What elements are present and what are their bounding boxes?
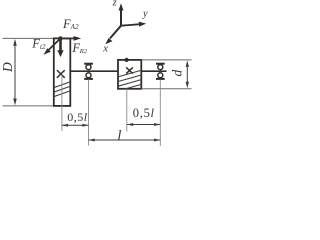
svg-text:y: y: [142, 8, 148, 19]
dimension 0,5l right: [127, 123, 160, 126]
svg-text:d: d: [170, 70, 185, 77]
shaft segment gear2 to right end: [141, 70, 166, 72]
extension line below gear1 center: [61, 75, 63, 132]
dimension l: [89, 139, 161, 142]
force application dot on gear1: [58, 36, 62, 40]
force F_A2 arrow: [61, 36, 82, 41]
bearing left: [84, 64, 93, 79]
svg-text:0,5l: 0,5l: [67, 110, 88, 124]
gear2 hub cross: [126, 67, 133, 73]
gear wheel 1 (diameter D): [54, 38, 71, 106]
gear1 hub cross: [57, 70, 65, 78]
extension line gear1 bottom (D lower): [3, 105, 54, 107]
bearing right: [156, 64, 165, 79]
dimension d: [186, 60, 189, 88]
y axis: [121, 24, 140, 26]
z axis: [120, 9, 122, 26]
dimension D: [13, 39, 17, 106]
svg-text:0,5l: 0,5l: [133, 106, 155, 120]
x axis: [110, 26, 121, 39]
force F_R2 arrow: [57, 38, 63, 57]
svg-text:x: x: [102, 44, 108, 55]
force F_t2 arrow: [44, 38, 61, 54]
dimension 0,5l left: [62, 124, 89, 127]
extension line below left bearing: [88, 80, 90, 146]
gear1 hatching: [53, 82, 71, 97]
shaft segment gear1 to gear2: [70, 70, 118, 72]
svg-text:D: D: [0, 62, 15, 73]
extension line below right bearing: [159, 80, 161, 147]
extension line gear1 top (D upper): [3, 37, 54, 39]
svg-text:l: l: [117, 128, 121, 144]
gear2 hatching: [118, 70, 142, 91]
extension line gear2 top (d upper): [141, 59, 191, 61]
extension line gear2 bottom (d lower): [141, 88, 191, 90]
coordinate axes origin: [105, 3, 146, 44]
svg-text:z: z: [112, 0, 117, 9]
extension line below gear2 center: [126, 89, 128, 132]
gear2 pitch point dot: [125, 58, 129, 62]
gear wheel 2 (diameter d): [118, 60, 141, 89]
